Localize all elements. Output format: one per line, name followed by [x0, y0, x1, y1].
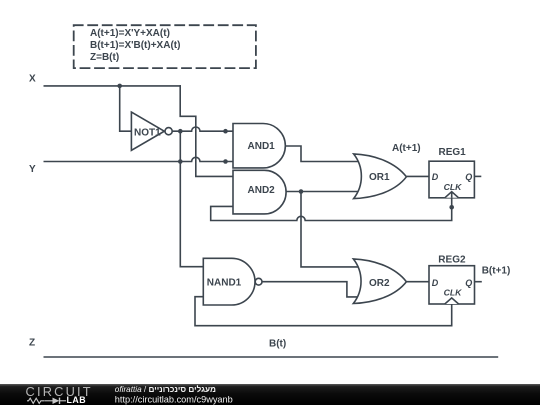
- wire NOT1 output down to NAND1 upper input: [180, 131, 203, 267]
- node REG1 CLK pin dot: [449, 205, 454, 210]
- node NOT1 out junction: [178, 129, 183, 134]
- NAND1 gate: [203, 258, 255, 305]
- REG2 box: [429, 266, 475, 304]
- OR2 gate: [353, 259, 406, 304]
- NOT1 triangle: [131, 112, 164, 150]
- svg-text:ofirattia / מעגלים סינכרוניים: ofirattia / מעגלים סינכרוניים: [115, 385, 216, 394]
- svg-text:Z=B(t): Z=B(t): [90, 52, 119, 63]
- logo resistor zigzag: [27, 398, 66, 403]
- wire OR1 output to REG1 D: [407, 175, 429, 177]
- AND2 gate: [233, 170, 286, 214]
- gates: white filled, drawn after wires: [131, 112, 474, 305]
- svg-text:CLK: CLK: [444, 288, 463, 298]
- svg-text:B(t+1): B(t+1): [482, 265, 511, 276]
- svg-text:REG1: REG1: [439, 147, 467, 158]
- AND1 gate: [233, 124, 285, 168]
- svg-text:http://circuitlab.com/c9wyanb: http://circuitlab.com/c9wyanb: [115, 395, 233, 405]
- NAND1 bubble: [255, 278, 262, 285]
- svg-text:B(t): B(t): [269, 339, 286, 350]
- wire AND1 output to OR1 upper input: [286, 146, 362, 162]
- wire OR2 output to REG2 D: [407, 281, 430, 283]
- svg-text:B(t+1)=X'B(t)+XA(t): B(t+1)=X'B(t)+XA(t): [90, 40, 180, 51]
- footer bar: [0, 384, 540, 405]
- wire AND2 output to OR1 lower input: [286, 191, 362, 193]
- svg-text:A(t+1): A(t+1): [392, 143, 421, 154]
- wire X branch to NOT1 input: [120, 86, 132, 131]
- svg-text:AND2: AND2: [248, 185, 276, 196]
- junction dots: [117, 84, 454, 210]
- REG1 clock triangle: [445, 192, 459, 198]
- REG2 clock triangle: [445, 298, 459, 304]
- wire REG1 CLK down-left-up to AND2 lower input with hop at x=301: [211, 198, 452, 221]
- node X/NOT1 junction: [117, 84, 122, 89]
- svg-text:X: X: [29, 74, 36, 85]
- node AND1 upper pin dot: [223, 129, 228, 134]
- svg-text:CLK: CLK: [444, 182, 463, 192]
- svg-text:NAND1: NAND1: [207, 277, 242, 288]
- wire NOT1 output to AND1 upper input with hop at x=195.8: [173, 127, 233, 131]
- wire NAND1 output to OR2 lower input: [262, 282, 362, 297]
- wire REG2 Q stub: [475, 281, 482, 283]
- node Y line junction: [178, 159, 183, 164]
- node AND1 lower pin dot: [223, 159, 228, 164]
- logo diode: [53, 398, 60, 404]
- wire Y input to AND1 lower input with hop at x=195.8: [44, 157, 233, 161]
- OR1 gate: [354, 154, 407, 199]
- svg-text:A(t+1)=X'Y+XA(t): A(t+1)=X'Y+XA(t): [90, 28, 170, 39]
- svg-text:NOT1: NOT1: [134, 127, 161, 138]
- wire AND2 output branch down to OR2 upper input: [301, 192, 362, 267]
- flip-flop pin labels: [432, 172, 473, 298]
- wire REG1 Q stub: [474, 175, 480, 177]
- svg-text:Z: Z: [29, 338, 35, 349]
- NOT1 bubble: [165, 128, 172, 135]
- svg-text:Q: Q: [465, 172, 472, 182]
- svg-text:OR1: OR1: [369, 172, 390, 183]
- wire X input: [44, 85, 180, 87]
- REG1 box: [429, 161, 474, 198]
- wire X to AND2 upper input (with step): [180, 86, 233, 176]
- equation box (dashed): [74, 25, 256, 68]
- svg-text:Y: Y: [29, 164, 36, 175]
- svg-text:D: D: [432, 172, 439, 182]
- svg-text:AND1: AND1: [248, 141, 276, 152]
- svg-text:Q: Q: [465, 278, 472, 288]
- svg-text:OR2: OR2: [369, 278, 390, 289]
- node AND2 output junction: [299, 189, 304, 194]
- svg-text:D: D: [432, 278, 439, 288]
- wire NAND1 lower input down to feedback line: [195, 297, 452, 326]
- wire Z line: [44, 356, 497, 358]
- svg-text:REG2: REG2: [438, 254, 466, 265]
- svg-text:LAB: LAB: [67, 395, 87, 405]
